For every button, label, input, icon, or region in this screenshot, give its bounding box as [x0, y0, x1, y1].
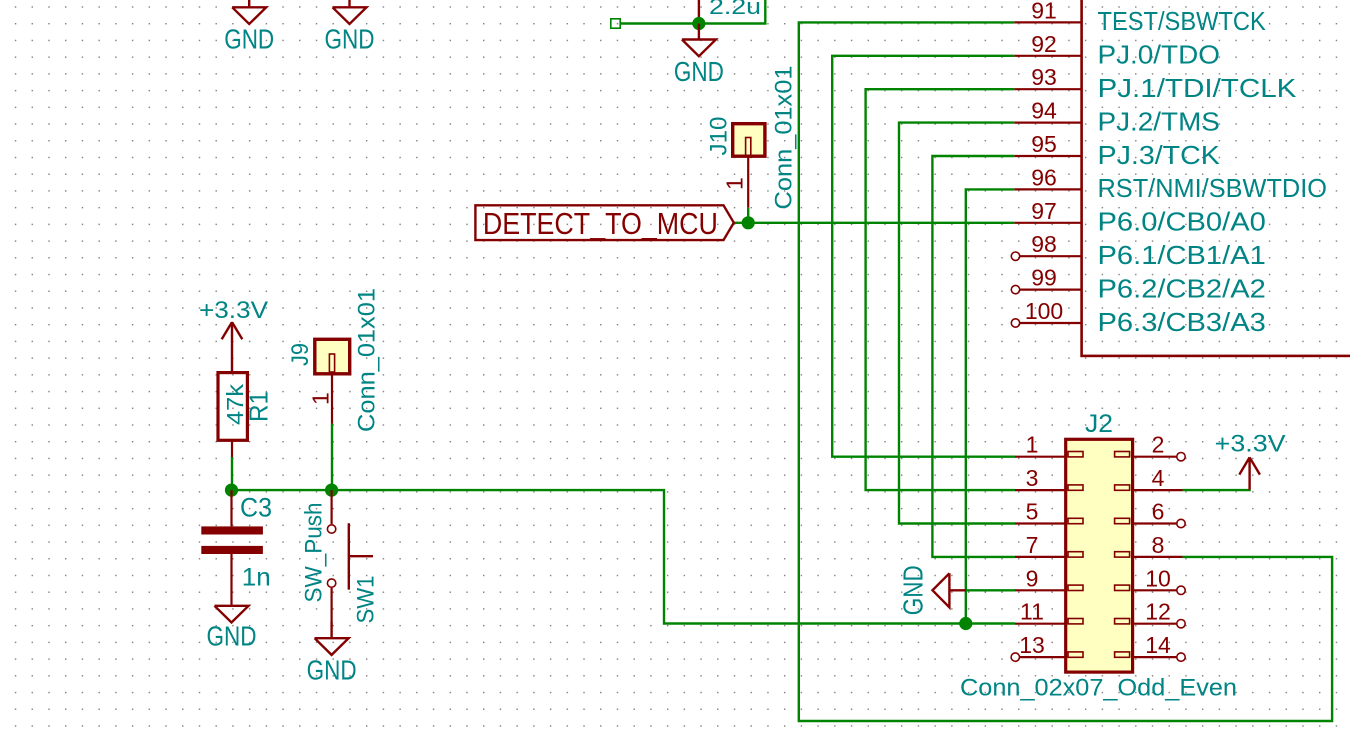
- J10 reference label: [706, 117, 733, 156]
- J9 reference label: [287, 343, 314, 366]
- wire J2 pin 4 -> +3.3V: [1183, 489, 1250, 492]
- J10 pin 1 number: [722, 177, 748, 190]
- MCU pin 92 PJ.0/TDO: [1014, 31, 1220, 70]
- ground GND (left-pointing, at J2 pin 9): [898, 565, 966, 615]
- wire junction to right then up off-screen: [699, 0, 765, 24]
- svg-text:100: 100: [1025, 298, 1063, 324]
- svg-text:P6.3/CB3/A3: P6.3/CB3/A3: [1098, 309, 1266, 337]
- J2 pin 9 (left): [1015, 565, 1083, 591]
- svg-text:8: 8: [1152, 532, 1165, 558]
- capacitor value 2.2u (component clipped at top edge): [699, 0, 761, 24]
- MCU pin 97 P6.0/CB0/A0: [1014, 198, 1266, 237]
- wire MCU pin 93 -> J2 pin 3: [866, 89, 1015, 490]
- svg-text:2: 2: [1152, 432, 1165, 458]
- svg-text:95: 95: [1031, 131, 1057, 157]
- svg-text:Conn_01x01: Conn_01x01: [771, 66, 798, 210]
- svg-text:PJ.0/TDO: PJ.0/TDO: [1098, 42, 1220, 70]
- svg-text:5: 5: [1026, 499, 1039, 525]
- svg-text:GND: GND: [224, 24, 274, 55]
- svg-text:97: 97: [1031, 198, 1057, 224]
- J2 pin 10 (right): [1115, 565, 1186, 594]
- junction (J9/SW1/wire): [325, 484, 338, 497]
- J2 value Conn_02x07_Odd_Even: [960, 675, 1237, 702]
- wire J10 pin to junction: [747, 208, 749, 223]
- svg-text:P6.0/CB0/A0: P6.0/CB0/A0: [1098, 209, 1266, 237]
- J10 value Conn_01x01: [771, 66, 798, 210]
- power +3.3V (left): [199, 298, 268, 372]
- MCU pin 98 P6.1/CB1/A1: [1011, 231, 1266, 270]
- svg-text:PJ.1/TDI/TCLK: PJ.1/TDI/TCLK: [1098, 75, 1297, 103]
- svg-text:GND: GND: [325, 24, 375, 55]
- svg-text:C3: C3: [240, 493, 272, 523]
- MCU pin 99 P6.2/CB2/A2: [1011, 265, 1266, 304]
- J2 pin 13 (left): [1011, 632, 1083, 661]
- resistor R1 47k: [218, 373, 274, 457]
- J2 pin 1 (left): [1015, 432, 1083, 458]
- wire MCU pin 96 -> down to junction -> J2 pin 11: [966, 189, 1015, 623]
- svg-text:GND: GND: [898, 565, 929, 615]
- svg-text:PJ.3/TCK: PJ.3/TCK: [1098, 142, 1220, 170]
- svg-text:1: 1: [722, 177, 748, 190]
- svg-text:13: 13: [1019, 632, 1045, 658]
- svg-text:J9: J9: [287, 343, 314, 366]
- svg-text:6: 6: [1152, 499, 1165, 525]
- svg-text:GND: GND: [207, 621, 257, 652]
- svg-text:+3.3V: +3.3V: [1215, 432, 1286, 458]
- power +3.3V (right, at J2 pin 4): [1215, 432, 1286, 490]
- svg-text:GND: GND: [307, 655, 357, 686]
- J2 pin 4 (right): [1115, 465, 1183, 491]
- ground GND (below C3): [207, 606, 257, 652]
- wire R1 to node: [231, 457, 233, 490]
- svg-text:+3.3V: +3.3V: [199, 298, 268, 324]
- svg-text:1n: 1n: [242, 564, 271, 592]
- J2 pin 7 (left): [1015, 532, 1083, 558]
- svg-text:1: 1: [308, 392, 334, 405]
- J2 pin 11 (left): [1015, 599, 1083, 625]
- svg-text:11: 11: [1020, 599, 1044, 625]
- J2 pin 6 (right): [1115, 499, 1186, 528]
- svg-text:98: 98: [1031, 231, 1057, 257]
- svg-text:R1: R1: [244, 391, 274, 422]
- connector J9 Conn_01x01 (yellow box): [315, 339, 350, 374]
- svg-text:12: 12: [1145, 599, 1171, 625]
- MCU pin 94 PJ.2/TMS: [1014, 98, 1220, 137]
- svg-text:14: 14: [1145, 632, 1171, 658]
- svg-text:DETECT_TO_MCU: DETECT_TO_MCU: [483, 208, 718, 241]
- wire J9 pin to node: [331, 424, 333, 490]
- J2 pin 14 (right): [1115, 632, 1186, 661]
- svg-text:SW_Push: SW_Push: [301, 503, 328, 603]
- svg-text:3: 3: [1026, 465, 1039, 491]
- junction (R1/C3/wire): [225, 484, 238, 497]
- wire from open square to junction: [620, 22, 699, 24]
- svg-text:99: 99: [1031, 265, 1057, 291]
- svg-text:7: 7: [1026, 532, 1039, 558]
- wire MCU pin 94 -> J2 pin 5: [899, 123, 1015, 524]
- svg-text:94: 94: [1031, 98, 1057, 124]
- wire MCU pin 91 -> down-left loop -> J2 pin 8: [799, 22, 1332, 721]
- ground GND (below SW1): [307, 622, 357, 686]
- svg-text:4: 4: [1152, 465, 1165, 491]
- capacitor C3 1n: [201, 490, 272, 606]
- svg-text:TEST/SBWTCK: TEST/SBWTCK: [1098, 8, 1266, 36]
- junction (pin96 wire / left wire / J2 pin 11): [959, 617, 972, 630]
- svg-text:P6.1/CB1/A1: P6.1/CB1/A1: [1098, 242, 1266, 270]
- J9 pin 1 lead: [331, 374, 333, 424]
- svg-text:91: 91: [1031, 0, 1057, 23]
- svg-text:92: 92: [1031, 31, 1057, 57]
- connector J10 Conn_01x01 (yellow box): [733, 124, 765, 157]
- switch SW1 SW_Push: [301, 490, 380, 623]
- MCU IC body (clipped top/right): [1082, 0, 1350, 356]
- ground GND (below 2.2u junction): [674, 24, 724, 88]
- wire MCU pin 95 -> J2 pin 7: [932, 156, 1015, 557]
- J10 pin 1 lead: [747, 156, 749, 208]
- svg-text:RST/NMI/SBWTDIO: RST/NMI/SBWTDIO: [1098, 175, 1328, 203]
- junction (DETECT_TO_MCU / J10 / pin97): [742, 216, 755, 229]
- J2 reference label: [1085, 410, 1113, 438]
- ground GND (top-left #1): [224, 0, 274, 55]
- ground GND (top-left #2): [325, 0, 375, 55]
- svg-text:1: 1: [1026, 432, 1039, 458]
- MCU pin 96 RST/NMI/SBWTDIO: [1014, 164, 1327, 203]
- wire node -> (664,490) -> (664,623) -> junction at pin11 column: [232, 490, 966, 623]
- J9 pin 1 number: [308, 392, 334, 405]
- svg-text:J2: J2: [1085, 410, 1113, 438]
- svg-text:GND: GND: [674, 56, 724, 87]
- J2 pin 5 (left): [1015, 499, 1083, 525]
- wire end open square: [611, 19, 620, 28]
- svg-text:2.2u: 2.2u: [709, 0, 761, 19]
- MCU pin 93 PJ.1/TDI/TCLK: [1014, 64, 1296, 103]
- svg-text:93: 93: [1031, 64, 1057, 90]
- junction (2.2u cap / GND): [692, 17, 705, 30]
- MCU pin 91 TEST/SBWTCK: [1014, 0, 1266, 36]
- svg-text:96: 96: [1031, 164, 1057, 190]
- svg-text:J10: J10: [706, 117, 733, 156]
- J2 pin 8 (right): [1115, 532, 1183, 558]
- J2 pin 12 (right): [1115, 599, 1186, 628]
- svg-text:10: 10: [1145, 565, 1171, 591]
- MCU pin 95 PJ.3/TCK: [1014, 131, 1220, 170]
- wire DETECT_TO_MCU label -> MCU pin 97: [734, 222, 1015, 224]
- MCU pin 100 P6.3/CB3/A3: [1011, 298, 1266, 337]
- svg-text:Conn_02x07_Odd_Even: Conn_02x07_Odd_Even: [960, 675, 1237, 702]
- svg-text:Conn_01x01: Conn_01x01: [354, 288, 381, 432]
- global label DETECT_TO_MCU: [475, 205, 733, 241]
- wire MCU pin 92 -> J2 pin 1: [832, 56, 1015, 457]
- connector J2 Conn_02x07_Odd_Even (yellow box): [1066, 439, 1133, 672]
- svg-text:P6.2/CB2/A2: P6.2/CB2/A2: [1098, 275, 1266, 303]
- svg-text:9: 9: [1026, 565, 1039, 591]
- J2 pin 3 (left): [1015, 465, 1083, 491]
- svg-text:PJ.2/TMS: PJ.2/TMS: [1098, 108, 1220, 136]
- J9 value Conn_01x01: [354, 288, 381, 432]
- wire J2 pin 9 to GND stub: [966, 589, 1015, 591]
- svg-text:SW1: SW1: [353, 576, 380, 624]
- J2 pin 2 (right): [1115, 432, 1186, 461]
